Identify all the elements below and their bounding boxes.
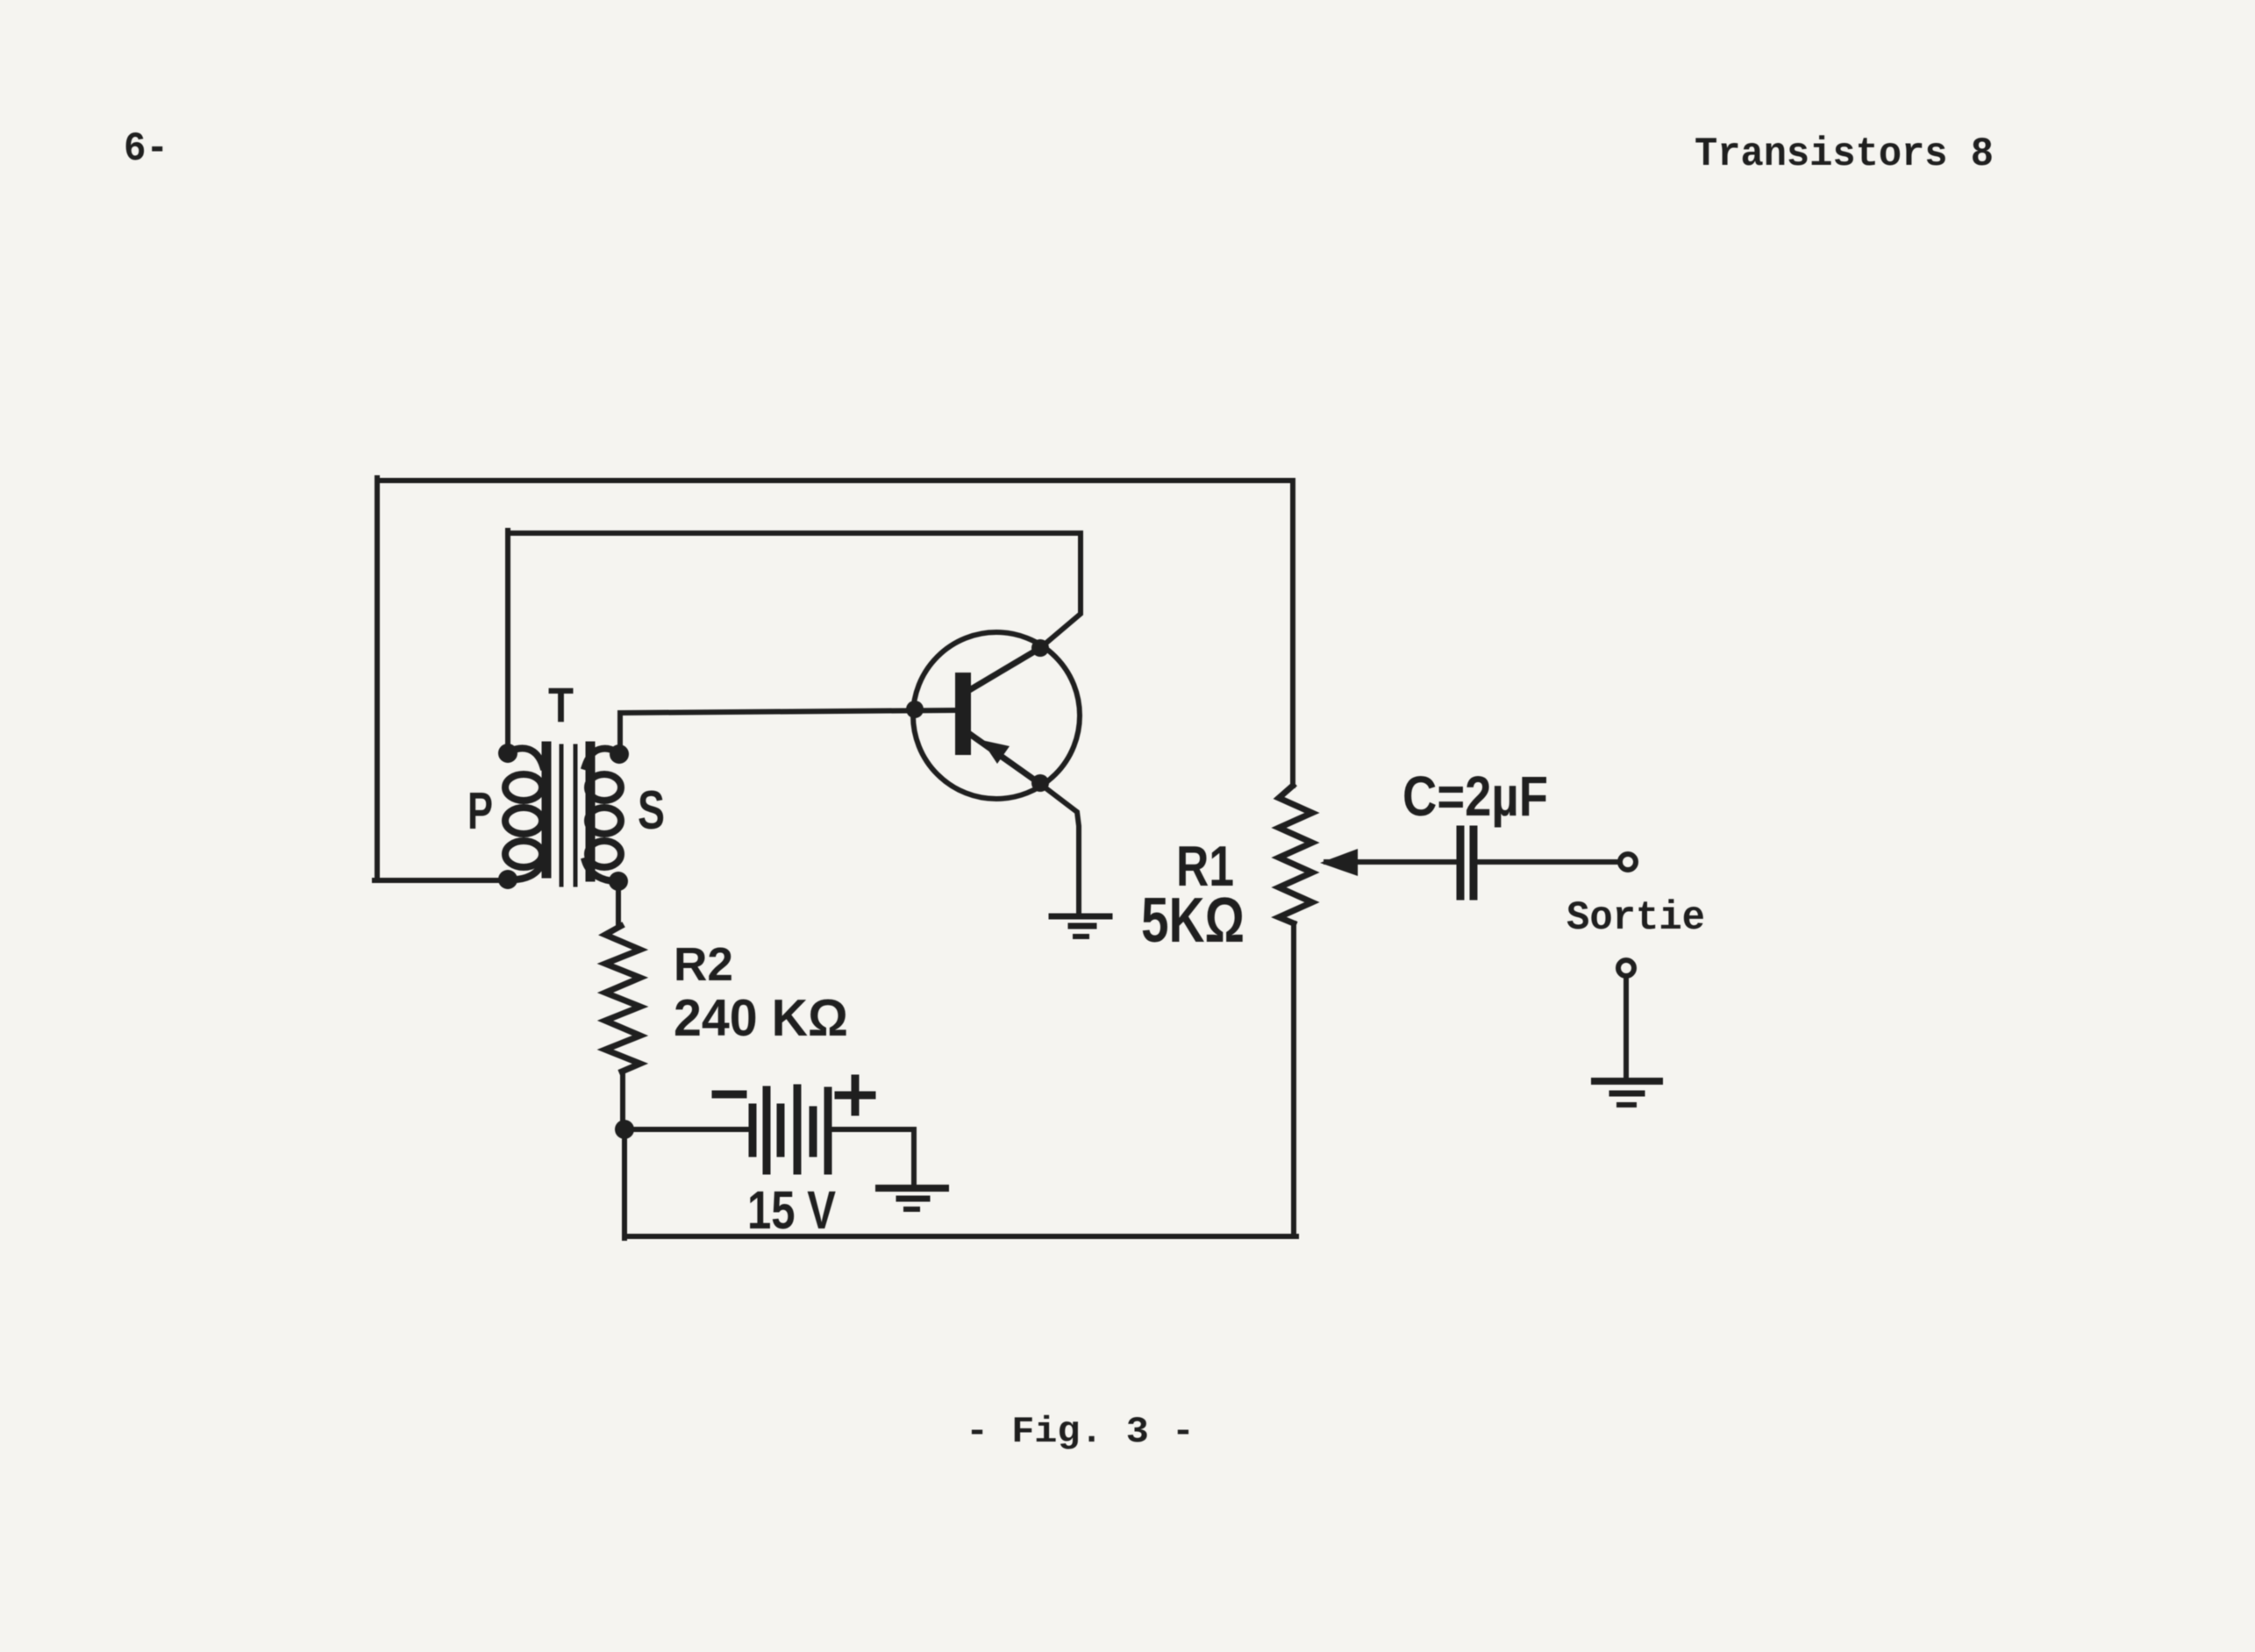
svg-text:Transistors 8: Transistors 8 xyxy=(1695,132,1994,177)
svg-text:S: S xyxy=(638,780,665,841)
svg-text:Sortie: Sortie xyxy=(1566,895,1705,941)
svg-text:240 KΩ: 240 KΩ xyxy=(674,989,848,1047)
svg-text:- Fig. 3 -: - Fig. 3 - xyxy=(966,1411,1195,1453)
svg-text:6-: 6- xyxy=(124,126,168,172)
svg-text:5KΩ: 5KΩ xyxy=(1141,886,1245,956)
svg-text:15 V: 15 V xyxy=(747,1180,836,1240)
svg-text:C=2µF: C=2µF xyxy=(1402,765,1548,828)
svg-text:P: P xyxy=(467,782,493,840)
svg-text:R2: R2 xyxy=(674,938,733,991)
svg-text:T: T xyxy=(548,677,574,732)
